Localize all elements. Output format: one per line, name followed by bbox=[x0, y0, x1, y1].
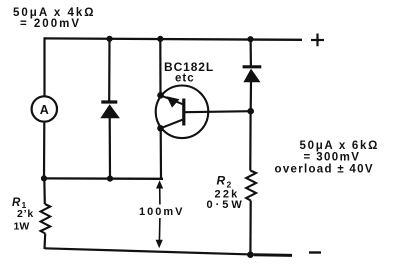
wire: ammeter to mid-node bbox=[43, 123, 45, 179]
svg-text:0·5W: 0·5W bbox=[207, 199, 245, 211]
diode D2 cathode bar bbox=[243, 65, 262, 68]
wire: D2 top lead bbox=[250, 39, 252, 66]
wire: R1 to bottom rail bbox=[43, 234, 46, 250]
svg-text:R: R bbox=[217, 174, 226, 188]
transistor arrow bbox=[167, 96, 180, 107]
transistor upper lead diagonal bbox=[161, 95, 184, 104]
svg-text:etc: etc bbox=[175, 73, 195, 85]
node: transistor wire top junction bbox=[157, 36, 163, 42]
dimension: 100mV up arrow bbox=[156, 180, 163, 188]
resistor R1 zigzag bbox=[41, 204, 51, 234]
node: mid-left junction bbox=[41, 175, 47, 181]
wire: D1 bottom lead bbox=[109, 117, 112, 179]
+ terminal bbox=[311, 34, 324, 47]
transistor base bar bbox=[182, 99, 185, 126]
transistor Q1 circle bbox=[156, 86, 209, 139]
node: diode D2 top junction bbox=[247, 36, 253, 42]
wire: base to right node bbox=[185, 111, 251, 112]
diode D1 triangle bbox=[100, 104, 120, 118]
svg-text:100mV: 100mV bbox=[139, 206, 184, 218]
wire: left vertical from top rail to ammeter bbox=[43, 37, 45, 96]
dimension: down arrow bbox=[156, 240, 163, 248]
wire: top positive rail bbox=[44, 38, 302, 39]
wire: collector down to mid wire bbox=[160, 128, 163, 178]
wire: bottom rail thick end bbox=[254, 253, 292, 257]
node: D1 bottom junction bbox=[107, 176, 113, 182]
dimension: upper line bbox=[159, 186, 161, 205]
svg-text:overload ± 40V: overload ± 40V bbox=[275, 164, 374, 176]
resistor R2 zigzag bbox=[246, 171, 256, 201]
wire: bottom negative rail bbox=[45, 248, 257, 254]
ammeter A bbox=[32, 96, 57, 121]
svg-text:2’k: 2’k bbox=[17, 208, 34, 220]
- terminal bbox=[309, 251, 321, 253]
node: bottom rail junction bbox=[247, 251, 254, 258]
wire: mid horizontal wire bbox=[44, 177, 163, 180]
node: emitter junction on circle bbox=[157, 92, 164, 99]
wire: R2 to bottom rail bbox=[249, 201, 252, 256]
wire: mid-node down to resistor R1 bbox=[43, 178, 46, 204]
node: D1 top junction bbox=[106, 36, 112, 42]
svg-text:= 300mV: = 300mV bbox=[304, 152, 361, 164]
diode D1 cathode bar bbox=[101, 100, 117, 103]
diode D2 triangle bbox=[243, 69, 260, 83]
svg-text:A: A bbox=[40, 103, 49, 117]
svg-text:50μA x 6kΩ: 50μA x 6kΩ bbox=[300, 140, 380, 152]
dimension: lower line bbox=[158, 218, 161, 241]
svg-text:= 200mV: = 200mV bbox=[20, 18, 81, 30]
wire: right node down to R2 bbox=[249, 111, 252, 170]
node: base-right junction bbox=[247, 108, 254, 115]
wire: D2 bottom lead bbox=[250, 81, 253, 111]
transistor lower lead diagonal bbox=[161, 120, 184, 129]
node: collector junction on circle bbox=[157, 125, 164, 132]
wire: top rail down to transistor emitter bbox=[159, 39, 161, 95]
svg-text:1W: 1W bbox=[14, 221, 30, 233]
wire: diode D1 top lead bbox=[108, 39, 111, 102]
